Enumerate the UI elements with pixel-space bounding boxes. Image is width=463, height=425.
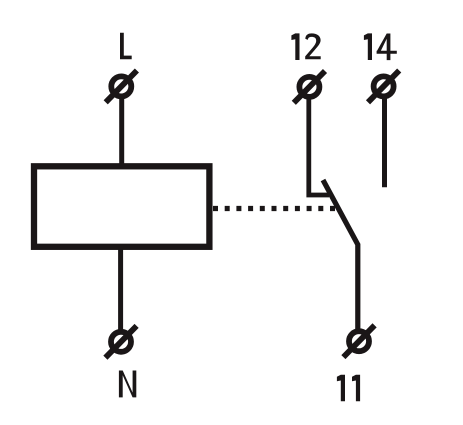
terminal N (105, 326, 136, 358)
wire coil to N (118, 246, 123, 331)
node 11 label (337, 375, 360, 402)
terminal 12 (294, 71, 325, 103)
node 14 label (364, 33, 397, 60)
terminal 14 (368, 71, 399, 103)
wire L to coil (119, 96, 124, 167)
terminal L (106, 71, 137, 103)
dotted actuator link coil to lever (213, 206, 336, 211)
wire 14 NO contact stub (382, 97, 387, 187)
node N label (119, 371, 136, 398)
switch lever and wire to 11 (323, 180, 358, 330)
terminal 11 (343, 325, 374, 357)
node L label (120, 33, 132, 60)
relay coil box (34, 166, 209, 247)
node 12 label (291, 33, 320, 60)
wire 12 to NC contact (309, 97, 329, 195)
